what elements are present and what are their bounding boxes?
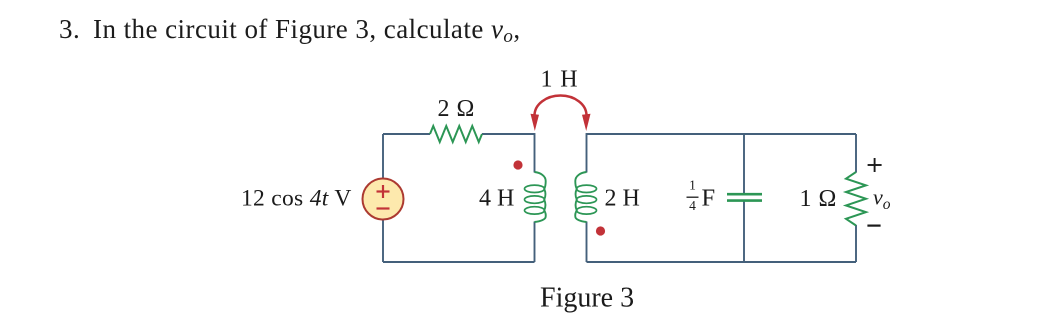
svg-text:1 H: 1 H [541, 67, 579, 93]
inductor L2 2H coil backbone [575, 172, 586, 222]
svg-text:3.In the circuit of Figure 3,: 3.In the circuit of Figure 3, calculate … [59, 14, 521, 47]
svg-text:2 H: 2 H [605, 186, 640, 212]
voltage source V1 12cos4t circle [363, 179, 404, 220]
inductor L1 4H coil backbone [535, 172, 546, 222]
polarity dot of L2 [596, 226, 605, 235]
wire: 4H top lead [534, 133, 536, 172]
mutual coupling arc 1H [535, 96, 587, 116]
resistor 2-ohm zigzag [430, 126, 482, 142]
label 1/4 F [687, 177, 716, 213]
label plus of vo [868, 158, 882, 172]
svg-text:12 cos 4t V: 12 cos 4t V [241, 186, 352, 212]
wire: right loop top [587, 133, 857, 135]
inductor L1 4H loop 2 [525, 196, 545, 203]
wire: right edge upper lead to 1-ohm [855, 134, 857, 173]
label minus of vo [867, 225, 880, 227]
wire: capacitor branch lower [743, 200, 745, 262]
wire: top between 2-ohm and 4H [482, 133, 535, 135]
wire: left loop top, source to 2-ohm resistor [383, 133, 430, 135]
svg-text:4: 4 [689, 198, 696, 213]
svg-text:Figure 3: Figure 3 [540, 283, 634, 314]
polarity dot of L1 [513, 160, 522, 169]
svg-text:vo: vo [873, 185, 891, 214]
capacitor 1/4F plates [727, 194, 762, 200]
inductor L2 2H loop 2 [577, 196, 597, 203]
svg-text:4 H: 4 H [479, 186, 514, 212]
wire: left edge of left loop [382, 134, 384, 262]
wire: capacitor branch upper [743, 134, 745, 194]
resistor 1-ohm zigzag [846, 172, 866, 226]
wire: bottom of right loop [587, 261, 857, 263]
inductor L1 4H loop 3 [525, 207, 545, 214]
wire: 4H bottom lead [534, 222, 536, 263]
coupling arrowhead left [531, 114, 540, 131]
wire: 2H top lead [586, 133, 588, 172]
svg-text:F: F [702, 185, 716, 212]
coupling arrowhead right [582, 114, 591, 131]
inductor L2 2H loop 1 [577, 185, 597, 192]
voltage source plus sign [377, 185, 390, 198]
inductor L2 2H loop 3 [577, 207, 597, 214]
inductor L1 4H loop 1 [525, 185, 545, 192]
wire: 2H bottom lead [586, 222, 588, 263]
wire: right edge lower lead from 1-ohm [855, 225, 857, 262]
svg-text:1: 1 [689, 177, 696, 192]
voltage source minus sign [377, 207, 390, 209]
wire: bottom of left loop [383, 261, 535, 263]
svg-text:2 Ω: 2 Ω [438, 96, 475, 122]
svg-text:1 Ω: 1 Ω [800, 186, 837, 212]
